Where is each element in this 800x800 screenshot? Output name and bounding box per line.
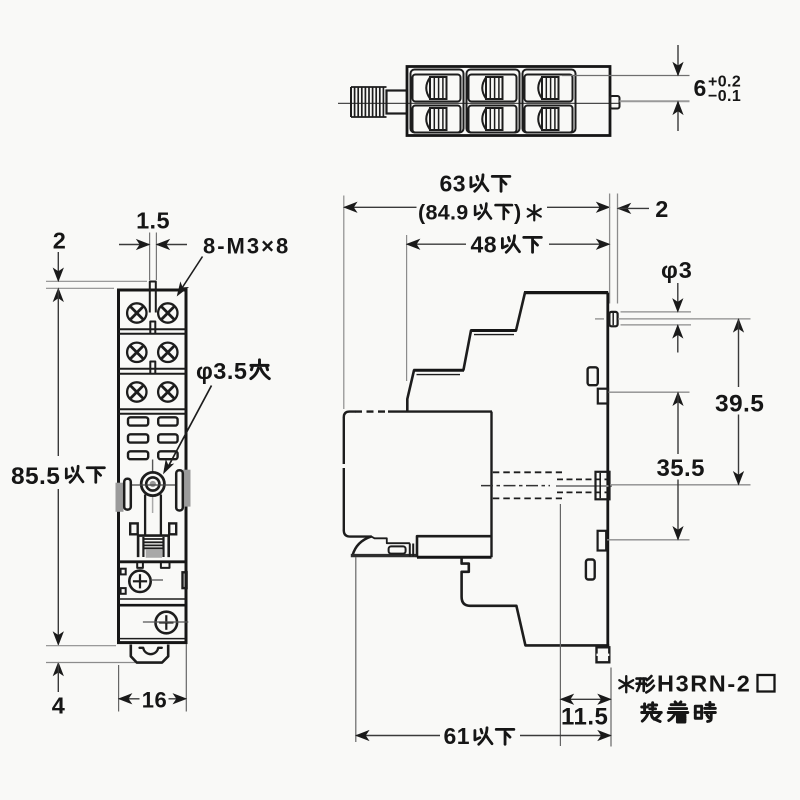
side view: dim 63 extension line left: [343, 196, 345, 410]
front view: hanging notches: [137, 563, 143, 568]
top view: right pin: [610, 96, 620, 109]
side view: latch detail: [372, 537, 410, 544]
svg-text:2: 2: [53, 228, 67, 254]
front view: leader to hole: [168, 386, 212, 468]
side view: dim 63/84.9 dimension line: [344, 206, 416, 208]
front view: dim 4 extension lines: [46, 645, 116, 647]
svg-text:61: 61: [444, 723, 471, 749]
side view: note line2 装着時: [642, 703, 662, 722]
side view: lower staircase: [462, 557, 517, 606]
top view: terminal block assembly centerline: [338, 102, 620, 104]
side view: lower front box: [417, 536, 492, 557]
front view: center tabs between sections: [150, 322, 155, 334]
svg-text:−0.1: −0.1: [708, 88, 741, 105]
side view: 35.5 top extension line: [609, 391, 690, 393]
svg-text:2: 2: [655, 196, 669, 222]
side view: rail notch lower: [598, 531, 607, 551]
side view: dim 48 dimension line: [407, 243, 466, 245]
side view: relay phantom box top edge: [344, 412, 355, 418]
side view: rail notch upper: [598, 389, 608, 404]
top view: terminal group 3: [523, 70, 576, 133]
side view: rib lines: [409, 544, 411, 557]
side view: socket right edge: [606, 293, 609, 647]
front view: shared dimension line 2 / 85.5 / 4: [57, 252, 59, 281]
top view: screw shank: [387, 91, 408, 114]
side view: 35.5 bottom extension line: [607, 539, 690, 541]
front view: dim 1.5 extension lines: [149, 233, 151, 281]
front view: left edge squares: [121, 569, 126, 575]
top view: dim 6 dimension line and arrows: [677, 45, 679, 75]
front view: dim 16 extension lines: [118, 665, 120, 712]
svg-text:): ): [514, 201, 522, 225]
side view: pin extension lines: [621, 311, 692, 313]
side view: dim 61以下: [356, 735, 440, 737]
front view: hole centerline: [131, 484, 177, 486]
side view: dim 2 leader: [618, 203, 631, 213]
side view: phi3 pin: [609, 312, 617, 326]
front view: bottom inner line: [119, 638, 186, 640]
top view: screw thread section: [351, 87, 387, 117]
svg-text:4: 4: [52, 693, 66, 719]
side view: dim 11.5: [561, 698, 610, 700]
side view: center rail pin: [596, 472, 610, 500]
front view: small feet: [130, 523, 138, 534]
svg-text:(84.9: (84.9: [418, 201, 469, 225]
svg-text:8-M3×8: 8-M3×8: [203, 234, 290, 259]
side view: pin centerline / 39.5 top extension: [595, 318, 604, 320]
svg-text:35.5: 35.5: [657, 455, 705, 482]
side view: dim 39.5: [734, 319, 744, 332]
side view: note *H3RN-2: [619, 676, 633, 692]
front view: phi3.5 hole: [141, 472, 164, 495]
front view: leader to screw: [182, 257, 203, 289]
svg-text:1.5: 1.5: [136, 208, 170, 234]
top view: terminal group 1: [411, 70, 464, 133]
front view: side bracket right: [176, 470, 183, 510]
svg-text:63: 63: [440, 171, 467, 197]
side view: rail window square lower: [586, 560, 595, 580]
side view: bottom rail hook: [597, 647, 610, 662]
front view: side bracket left: [124, 479, 131, 510]
front view: dim 2 extension lines: [46, 280, 147, 282]
side view: rail window square upper: [588, 367, 598, 385]
side view: socket top edge: [524, 291, 608, 294]
top view: dim 6 extension lines: [562, 75, 690, 77]
svg-text:85.5: 85.5: [11, 463, 60, 490]
side view: staircase profile: [516, 293, 525, 331]
side view: dim 48 extension line: [406, 235, 408, 381]
side view: relay box right edge: [490, 412, 492, 558]
front view: release clamp with ribs: [138, 536, 169, 558]
svg-text:6: 6: [694, 75, 707, 101]
front view: gray side cutouts: [116, 483, 123, 512]
svg-text:11.5: 11.5: [561, 704, 608, 731]
svg-text:H3RN-2: H3RN-2: [657, 671, 751, 697]
front view: vent slots: [128, 417, 178, 459]
front view: socket body outline: [119, 290, 187, 643]
front view: lower divider: [119, 560, 187, 563]
front view: DIN clip screw lower: [156, 612, 178, 634]
side view: socket bottom edge under relay: [351, 554, 418, 557]
front view: terminal screws (8-M3x8): [127, 303, 177, 401]
svg-text:φ3: φ3: [661, 257, 693, 283]
side view: dim 61 extension line: [355, 557, 357, 742]
side view: dim 35.5: [673, 392, 683, 405]
front view: center line above hole: [152, 460, 154, 473]
front view: stem below hole: [144, 495, 146, 536]
side view: hidden dashed lines: [493, 471, 562, 473]
front view: lower section lines: [119, 598, 186, 600]
front view: section divider lines: [119, 328, 187, 330]
svg-text:39.5: 39.5: [715, 391, 764, 418]
svg-text:48: 48: [471, 232, 498, 258]
side view: socket bottom edge right: [525, 644, 609, 647]
front view: dim 1.5 arrows: [119, 244, 149, 246]
front view: DIN clip screw upper: [129, 571, 150, 592]
front view: bottom hook: [131, 645, 168, 663]
svg-text:φ3.5: φ3.5: [196, 358, 247, 384]
side view: relay phantom box left edge: [343, 417, 345, 457]
front view: top tab: [150, 282, 156, 313]
side view: relay box bottom-left corner and hook: [344, 531, 371, 537]
side view: dim 11.5 extension lines: [559, 504, 561, 746]
front view: dim 16: [119, 698, 139, 700]
top view: terminal group 2: [467, 70, 520, 133]
side view: rail extension lines (2): [609, 194, 611, 304]
top view: body outline: [407, 67, 610, 136]
front view: right edge rect: [183, 572, 187, 588]
svg-text:16: 16: [142, 688, 167, 713]
side view: 39.5 bottom extension line: [610, 484, 751, 486]
